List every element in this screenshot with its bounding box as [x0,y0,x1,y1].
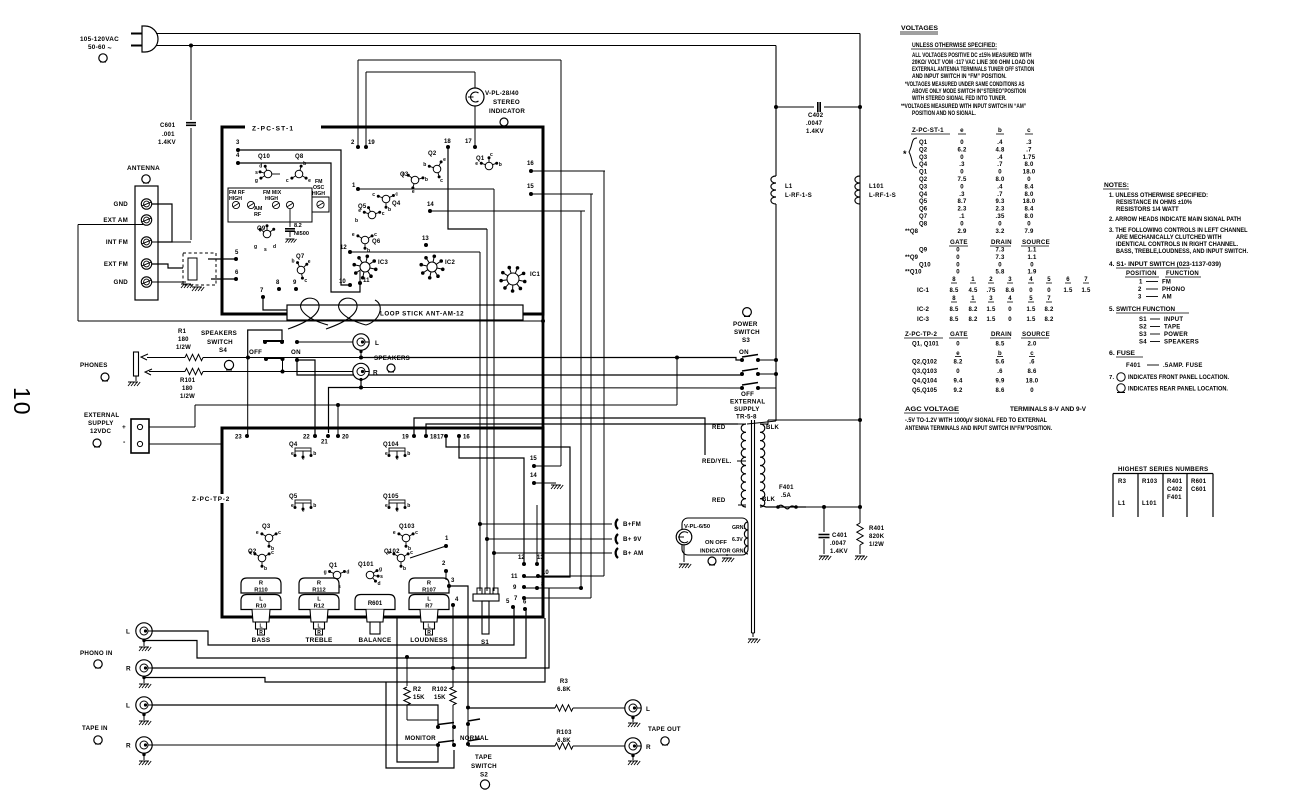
svg-text:C401: C401 [832,533,848,539]
svg-text:9.2: 9.2 [953,388,963,394]
svg-text:**Q10: **Q10 [905,270,922,276]
svg-text:IDENTICAL CONTROLS IN RIGHT C: IDENTICAL CONTROLS IN RIGHT CHANNEL. [1116,241,1238,248]
svg-text:s: s [380,574,383,580]
svg-text:0: 0 [1008,317,1012,323]
svg-text:c: c [382,211,385,217]
svg-text:C402: C402 [1167,487,1183,493]
svg-text:.4: .4 [997,140,1003,146]
svg-text:NOTES:: NOTES: [1104,182,1129,189]
svg-text:.5A: .5A [781,493,792,499]
svg-text:Q104: Q104 [383,442,399,448]
svg-text:7.: 7. [1109,375,1115,381]
svg-text:4.8: 4.8 [995,147,1005,153]
svg-text:1.4KV: 1.4KV [830,549,848,555]
svg-text:Q3: Q3 [400,172,409,178]
svg-text:0: 0 [956,248,960,254]
svg-text:b: b [998,127,1002,134]
svg-text:0: 0 [1029,288,1033,294]
svg-text:Q105: Q105 [383,494,399,500]
svg-text:5.8: 5.8 [995,270,1005,276]
svg-text:Q103: Q103 [399,524,415,530]
svg-text:Q4,Q104: Q4,Q104 [912,379,938,385]
svg-text:V-PL-28/40: V-PL-28/40 [485,90,519,97]
svg-text:IC-1: IC-1 [917,287,930,294]
svg-text:B+ 9V: B+ 9V [623,536,642,543]
svg-text:2.3: 2.3 [957,207,967,213]
svg-text:Q9: Q9 [257,226,266,232]
svg-text:S1: S1 [1139,317,1147,323]
svg-text:8.7: 8.7 [957,199,967,205]
svg-text:22: 22 [303,435,310,441]
svg-text:b: b [423,162,426,168]
svg-text:6.3V: 6.3V [732,537,743,543]
svg-text:.0047: .0047 [806,121,823,127]
svg-text:MONITOR: MONITOR [405,735,436,742]
svg-text:1/2W: 1/2W [180,394,195,400]
svg-text:8.4: 8.4 [1024,207,1034,213]
svg-text:0: 0 [956,270,960,276]
svg-text:TAPE OUT: TAPE OUT [648,726,681,733]
svg-text:8.6: 8.6 [1005,288,1015,294]
svg-text:105-120VAC: 105-120VAC [80,36,119,43]
svg-text:g: g [254,244,257,250]
svg-text:d: d [273,244,276,250]
svg-text:RED: RED [712,425,726,431]
svg-text:AM: AM [1162,295,1172,301]
svg-text:9: 9 [293,280,297,286]
svg-text:8.5: 8.5 [949,288,959,294]
svg-text:BLK: BLK [762,497,775,503]
svg-text:16: 16 [463,435,470,441]
svg-text:SUPPLY: SUPPLY [88,420,114,427]
svg-text:19: 19 [368,140,375,146]
svg-text:L: L [375,340,379,347]
svg-text:12VDC: 12VDC [90,428,111,435]
svg-text:9.4: 9.4 [953,379,963,385]
svg-text:Q2: Q2 [919,147,928,153]
svg-text:7: 7 [514,596,518,602]
svg-text:FM: FM [1162,280,1171,286]
svg-text:e: e [308,259,311,265]
svg-text:EXT FM: EXT FM [104,261,128,268]
svg-text:ON: ON [291,349,301,356]
svg-text:1/2W: 1/2W [176,345,191,351]
svg-text:7: 7 [260,288,264,294]
svg-text:R3: R3 [1118,479,1127,485]
svg-text:4. S1- INPUT SWITCH (023-1137: 4. S1- INPUT SWITCH (023-1137-039) [1109,261,1221,268]
svg-text:.4: .4 [997,184,1003,190]
svg-text:c: c [271,550,274,556]
svg-text:1.5: 1.5 [986,317,996,323]
svg-text:0: 0 [998,170,1002,176]
svg-text:V-PL-6/50: V-PL-6/50 [684,524,710,530]
svg-text:F401: F401 [1126,363,1141,369]
svg-text:2.3: 2.3 [995,207,1005,213]
svg-text:L: L [317,597,321,603]
svg-text:e: e [960,127,964,134]
svg-text:3: 3 [989,296,993,302]
svg-text:13: 13 [537,555,544,561]
svg-text:R12: R12 [314,604,325,610]
svg-text:7.3: 7.3 [995,255,1005,261]
svg-text:10: 10 [339,279,346,285]
svg-text:1.5: 1.5 [1026,317,1036,323]
svg-text:b: b [388,207,391,213]
svg-text:FUNCTION: FUNCTION [1166,271,1199,277]
svg-text:1.4KV: 1.4KV [158,140,176,146]
svg-text:e: e [385,503,388,509]
svg-text:4: 4 [455,597,459,603]
svg-text:Q1: Q1 [476,156,485,162]
svg-text:NI500: NI500 [294,231,309,237]
svg-text:IC3: IC3 [378,260,389,266]
svg-text:3. THE FOLLOWING CONTROLS IN: 3. THE FOLLOWING CONTROLS IN LEFT CHANNE… [1109,227,1248,234]
svg-text:18: 18 [444,139,451,145]
svg-text:8: 8 [952,296,956,302]
svg-text:3: 3 [1138,295,1142,301]
svg-text:820K: 820K [869,534,885,540]
svg-text:1.9: 1.9 [1027,270,1037,276]
svg-text:Q9: Q9 [919,248,928,254]
svg-text:0: 0 [1030,388,1034,394]
svg-text:2: 2 [1138,287,1142,293]
svg-text:8: 8 [276,280,280,286]
svg-text:14: 14 [427,202,434,208]
svg-text:c: c [278,530,281,536]
svg-text:PHONO IN: PHONO IN [80,650,113,657]
svg-text:NORMAL: NORMAL [460,735,489,742]
svg-text:R101: R101 [180,378,196,384]
svg-text:IC2: IC2 [445,260,456,266]
svg-text:L-RF-1-S: L-RF-1-S [869,193,896,199]
svg-text:R601: R601 [1191,479,1207,485]
svg-text:AGC VOLTAGE: AGC VOLTAGE [905,406,960,413]
svg-text:0: 0 [960,140,964,146]
svg-text:7: 7 [1047,296,1051,302]
svg-text:180: 180 [178,337,189,343]
svg-text:8.2: 8.2 [968,317,978,323]
svg-text:Q2,Q102: Q2,Q102 [912,360,938,366]
svg-text:Q102: Q102 [384,549,400,555]
svg-text:Q3,Q103: Q3,Q103 [912,369,938,375]
svg-text:2.0: 2.0 [1027,342,1037,348]
svg-text:6.2: 6.2 [957,147,967,153]
svg-text:IC-3: IC-3 [917,316,930,323]
svg-text:R: R [126,666,131,673]
svg-text:ON OFF: ON OFF [705,540,727,546]
svg-text:ON: ON [739,349,749,356]
svg-text:7.3: 7.3 [995,248,1005,254]
svg-text:RED: RED [712,498,726,504]
svg-text:S4: S4 [1139,340,1147,346]
svg-text:Z-PC-ST-1: Z-PC-ST-1 [912,127,944,134]
svg-text:8.0: 8.0 [1024,162,1034,168]
svg-text:Q5,Q105: Q5,Q105 [912,388,938,394]
svg-text:R401: R401 [869,526,885,532]
svg-text:4: 4 [1008,296,1012,302]
svg-text:R112: R112 [312,588,326,594]
svg-text:10: 10 [9,387,35,417]
svg-text:PHONES: PHONES [80,362,108,369]
svg-text:Q101: Q101 [358,562,374,568]
svg-text:TAPE: TAPE [1164,325,1181,331]
svg-text:R103: R103 [1142,479,1158,485]
svg-text:0: 0 [956,342,960,348]
svg-text:R3: R3 [560,679,569,685]
svg-text:8.2: 8.2 [953,360,963,366]
svg-text:R: R [317,630,321,636]
svg-text:15: 15 [530,456,537,462]
svg-text:.6: .6 [1029,360,1035,366]
svg-text:.3: .3 [959,192,965,198]
svg-text:0: 0 [956,262,960,268]
svg-text:ANTENNA TERMINALS AND INPUT S: ANTENNA TERMINALS AND INPUT SWITCH IN“FM… [905,425,1052,432]
svg-text:0: 0 [1030,262,1034,268]
svg-text:8.2: 8.2 [968,307,978,313]
svg-text:4: 4 [236,153,240,159]
svg-text:5: 5 [1047,277,1051,283]
svg-text:Q2: Q2 [428,151,437,157]
svg-text:3.2: 3.2 [995,229,1005,235]
svg-text:L101: L101 [869,184,884,190]
svg-text:2: 2 [989,277,993,283]
svg-text:.3: .3 [959,162,965,168]
svg-text:12: 12 [340,245,347,251]
svg-text:R: R [259,630,263,636]
svg-text:18.0: 18.0 [1026,379,1039,385]
svg-text:INT FM: INT FM [106,239,128,246]
svg-text:Q8: Q8 [295,154,304,160]
svg-text:b: b [407,451,410,457]
svg-text:GRN.: GRN. [732,549,746,555]
svg-text:F401: F401 [779,485,794,491]
svg-text:14: 14 [530,473,537,479]
svg-text:19: 19 [402,435,409,441]
svg-text:~: ~ [108,46,112,53]
svg-text:C601: C601 [1191,487,1207,493]
svg-text:e: e [352,232,355,238]
svg-text:5. SWITCH FUNCTION: 5. SWITCH FUNCTION [1109,306,1175,313]
svg-text:1.1: 1.1 [1027,248,1037,254]
svg-text:.3: .3 [1026,140,1032,146]
svg-text:Q8: Q8 [919,221,928,227]
svg-text:8.2: 8.2 [294,223,302,229]
svg-text:0: 0 [960,155,964,161]
svg-text:POSITION AND NO SIGNAL.: POSITION AND NO SIGNAL. [912,110,976,117]
svg-text:.4: .4 [997,155,1003,161]
svg-text:AND INPUT SWITCH IN “FM” POSIT: AND INPUT SWITCH IN “FM” POSITION. [912,73,1007,80]
svg-text:RESISTANCE IN OHMS ±10%: RESISTANCE IN OHMS ±10% [1116,199,1192,206]
svg-text:12: 12 [518,555,525,561]
svg-text:3: 3 [451,578,455,584]
svg-text:8.4: 8.4 [1024,184,1034,190]
svg-text:5.6: 5.6 [995,360,1005,366]
svg-text:EXTERNAL ANTENNA TERMINALS TUN: EXTERNAL ANTENNA TERMINALS TUNER OFF STA… [912,66,1034,73]
svg-text:c: c [374,232,377,238]
svg-text:RED/YEL.: RED/YEL. [702,459,732,465]
svg-text:SPEAKERS: SPEAKERS [1164,340,1199,346]
svg-text:.1: .1 [959,214,965,220]
svg-text:Q1, Q101: Q1, Q101 [912,342,939,348]
svg-text:0: 0 [960,221,964,227]
svg-text:WITH STEREO SIGNAL FED INTO TU: WITH STEREO SIGNAL FED INTO TUNER. [912,95,1007,102]
svg-text:EXTERNAL: EXTERNAL [730,399,765,406]
svg-text:e: e [443,157,446,163]
svg-text:EXT AM: EXT AM [103,217,128,224]
svg-text:SWITCH: SWITCH [207,339,233,346]
svg-text:S2: S2 [480,772,488,779]
svg-text:IC1: IC1 [530,272,541,278]
svg-text:Q3: Q3 [262,524,271,530]
svg-text:0: 0 [998,262,1002,268]
svg-text:11: 11 [511,574,518,580]
svg-text:INPUT: INPUT [1164,317,1183,323]
svg-text:b: b [499,162,502,168]
svg-text:2.9: 2.9 [957,229,967,235]
svg-text:ANTENNA: ANTENNA [127,165,160,172]
svg-text:.35: .35 [995,214,1005,220]
svg-text:8.5: 8.5 [949,317,959,323]
svg-text:Q7: Q7 [296,254,305,260]
svg-text:13: 13 [422,236,429,242]
svg-text:21: 21 [321,440,328,446]
svg-text:s: s [264,247,267,253]
svg-text:**Q8: **Q8 [905,229,919,235]
svg-text:SPEAKERS: SPEAKERS [201,330,237,337]
svg-text:R: R [427,630,431,636]
svg-text:6.8K: 6.8K [557,687,571,693]
svg-text:0: 0 [956,255,960,261]
svg-text:6: 6 [1066,277,1070,283]
svg-text:OFF: OFF [741,391,754,398]
svg-text:BASS, TREBLE,LOUDNESS, AND INP: BASS, TREBLE,LOUDNESS, AND INPUT SWITCH. [1116,248,1248,255]
svg-text:ARE MECHANICALLY CLUTCHED WI: ARE MECHANICALLY CLUTCHED WITH [1116,234,1222,241]
svg-text:INDICATES FRONT PANEL LOCATION: INDICATES FRONT PANEL LOCATION. [1128,374,1229,381]
svg-text:Q6: Q6 [372,239,381,245]
svg-text:*: * [903,149,907,159]
svg-text:c: c [415,530,418,536]
svg-text:d: d [346,570,349,576]
svg-text:GATE: GATE [950,331,968,338]
svg-text:ALL VOLTAGES POSITIVE DC ±15%: ALL VOLTAGES POSITIVE DC ±15% MEASURED W… [912,52,1032,59]
svg-text:0: 0 [1008,307,1012,313]
svg-text:Q3: Q3 [919,184,928,190]
svg-text:TAPE IN: TAPE IN [82,725,108,732]
svg-text:8.0: 8.0 [995,177,1005,183]
svg-text:Q2: Q2 [919,177,928,183]
svg-text:LOOP STICK ANT-AM-12: LOOP STICK ANT-AM-12 [380,311,464,318]
svg-text:GND: GND [114,279,129,286]
svg-text:b: b [425,177,428,183]
svg-text:Q6: Q6 [919,207,928,213]
svg-text:**Q9: **Q9 [905,255,919,261]
svg-text:8.5: 8.5 [995,342,1005,348]
svg-text:4.5: 4.5 [968,288,978,294]
svg-text:7: 7 [1084,277,1088,283]
svg-text:C601: C601 [160,123,176,129]
svg-text:8: 8 [952,277,956,283]
svg-text:1.5: 1.5 [1063,288,1073,294]
svg-text:+: + [122,424,126,431]
svg-text:Q4: Q4 [919,192,928,198]
svg-text:20: 20 [342,435,349,441]
svg-text:8.6: 8.6 [1027,369,1037,375]
svg-text:1.5: 1.5 [986,307,996,313]
svg-text:1: 1 [352,183,356,189]
svg-text:.7: .7 [997,192,1003,198]
svg-text:GND: GND [114,201,129,208]
svg-text:c: c [440,178,443,184]
svg-text:e: e [291,451,294,457]
svg-text:Q3: Q3 [919,155,928,161]
svg-text:4: 4 [1029,277,1033,283]
svg-text:DRAIN: DRAIN [991,331,1012,338]
svg-text:EXTERNAL: EXTERNAL [84,412,119,419]
svg-text:R601: R601 [368,601,383,607]
svg-text:0: 0 [1047,288,1051,294]
svg-text:b: b [264,566,267,572]
svg-text:HIGH: HIGH [312,191,325,197]
svg-text:50-60: 50-60 [88,44,106,51]
svg-text:R107: R107 [422,588,436,594]
svg-text:R2: R2 [413,687,422,693]
svg-text:R110: R110 [254,588,268,594]
svg-text:Z-PC-ST-1: Z-PC-ST-1 [252,126,294,133]
svg-text:e: e [291,503,294,509]
svg-text:b: b [303,161,306,167]
svg-text:ABOVE ONLY MODE SWITCH IN“STER: ABOVE ONLY MODE SWITCH IN“STEREO”POSITIO… [912,88,1026,95]
svg-text:1.1: 1.1 [1027,255,1037,261]
svg-text:c: c [396,508,399,514]
svg-text:BASS: BASS [252,637,271,644]
svg-text:15K: 15K [434,695,446,701]
svg-text:e: e [385,451,388,457]
svg-text:R401: R401 [1167,479,1183,485]
svg-text:.5AMP. FUSE: .5AMP. FUSE [1163,363,1203,369]
svg-text:8.6: 8.6 [995,388,1005,394]
svg-text:0: 0 [1027,221,1031,227]
svg-text:18.0: 18.0 [1023,170,1036,176]
svg-text:c: c [302,508,305,514]
svg-text:9: 9 [513,585,517,591]
svg-text:b: b [355,218,358,224]
svg-text:DRAIN: DRAIN [991,239,1012,246]
svg-text:R: R [373,370,378,377]
svg-text:20KΩ/ VOLT VOM ·117 VAC LINE 3: 20KΩ/ VOLT VOM ·117 VAC LINE 300 OHM LOA… [912,59,1034,66]
svg-text:8.2: 8.2 [1044,307,1054,313]
svg-text:6: 6 [235,270,239,276]
svg-text:R7: R7 [425,604,432,610]
svg-text:Q5: Q5 [289,494,298,500]
svg-text:17: 17 [437,435,444,441]
svg-text:1: 1 [1139,280,1143,286]
svg-text:0: 0 [956,369,960,375]
svg-text:c: c [286,178,289,184]
svg-text:SWITCH: SWITCH [734,329,760,336]
svg-text:e: e [393,530,396,536]
svg-text:C402: C402 [808,113,824,119]
svg-text:Q1: Q1 [329,563,338,569]
svg-text:TERMINALS 8-V AND 9-V: TERMINALS 8-V AND 9-V [1010,406,1087,413]
svg-text:1.4KV: 1.4KV [806,129,824,135]
svg-text:UNLESS OTHERWISE SPECIFIED:: UNLESS OTHERWISE SPECIFIED: [912,42,997,49]
svg-text:c: c [304,278,307,284]
svg-text:F401: F401 [1167,495,1182,501]
svg-text:Q10: Q10 [258,154,271,160]
svg-text:3: 3 [236,140,240,146]
svg-text:BLK: BLK [766,425,779,431]
svg-text:INDICATOR: INDICATOR [489,108,525,115]
